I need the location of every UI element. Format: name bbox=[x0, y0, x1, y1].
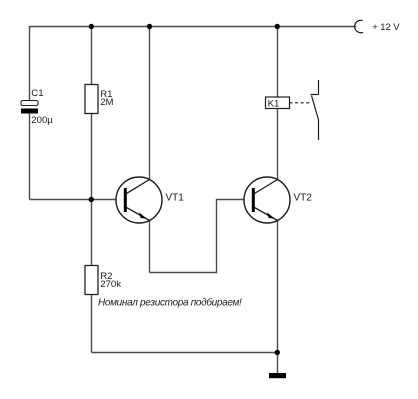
svg-text:2M: 2M bbox=[100, 97, 113, 108]
svg-text:VT1: VT1 bbox=[166, 193, 185, 204]
svg-text:K1: K1 bbox=[268, 98, 280, 109]
svg-text:+ 12 V: + 12 V bbox=[372, 22, 400, 33]
svg-text:C1: C1 bbox=[31, 88, 43, 99]
svg-text:VT2: VT2 bbox=[294, 193, 313, 204]
svg-text:270k: 270k bbox=[100, 279, 121, 290]
svg-text:200µ: 200µ bbox=[31, 115, 53, 126]
svg-text:Номинал резистора подбираем!: Номинал резистора подбираем! bbox=[98, 296, 242, 308]
